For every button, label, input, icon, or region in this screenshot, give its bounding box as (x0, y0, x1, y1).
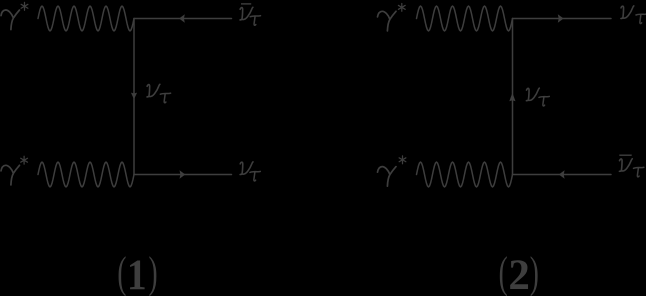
photon gamma* wavy line (diagram 2 bottom) (417, 162, 513, 187)
label anti-nu_tau bottom-right (diagram 2) (619, 155, 644, 177)
arrow down on internal propagator (diagram 1) (131, 93, 137, 100)
label anti-nu_tau top-right (diagram 1) (240, 3, 261, 25)
arrow left on bottom fermion line (diagram 2) (559, 170, 565, 179)
photon gamma* wavy line (diagram 2 top) (417, 6, 513, 31)
svg-text:): ) (530, 247, 539, 296)
caption (1) (117, 247, 157, 296)
svg-text:(: ( (499, 247, 508, 296)
caption (2) (499, 247, 539, 296)
label nu_tau top-right (diagram 2) (621, 6, 646, 24)
fermion line nu_tau bottom (diagram 1) (134, 174, 232, 176)
arrow left on top fermion line (diagram 1) (179, 14, 185, 23)
label gamma* bottom-left (diagram 1) (1, 156, 27, 185)
arrow right on top fermion line (diagram 2) (558, 14, 564, 23)
fermion line anti-nu_tau top (diagram 1) (134, 18, 232, 20)
fermion line nu_tau top (diagram 2) (513, 18, 612, 20)
svg-text:1: 1 (127, 250, 147, 296)
internal fermion propagator nu_tau vertical (diagram 1) (133, 19, 135, 175)
label gamma* bottom-left (diagram 2) (378, 156, 406, 186)
label gamma* top-left (diagram 2) (378, 4, 406, 31)
arrow up on internal propagator (diagram 2) (509, 93, 515, 101)
label nu_tau on internal propagator (diagram 1) (147, 84, 171, 103)
label nu_tau on internal propagator (diagram 2) (526, 88, 549, 106)
svg-text:): ) (149, 247, 158, 296)
svg-text:2: 2 (508, 252, 530, 296)
fermion line anti-nu_tau bottom (diagram 2) (513, 174, 612, 176)
photon gamma* wavy line (diagram 1 top) (38, 6, 134, 31)
svg-text:(: ( (117, 247, 126, 296)
label nu_tau bottom-right (diagram 1) (240, 162, 260, 181)
internal fermion propagator nu_tau vertical (diagram 2) (512, 19, 514, 175)
photon gamma* wavy line (diagram 1 bottom) (38, 162, 134, 187)
arrow right on bottom fermion line (diagram 1) (180, 170, 186, 179)
label gamma* top-left (diagram 1) (1, 2, 28, 29)
